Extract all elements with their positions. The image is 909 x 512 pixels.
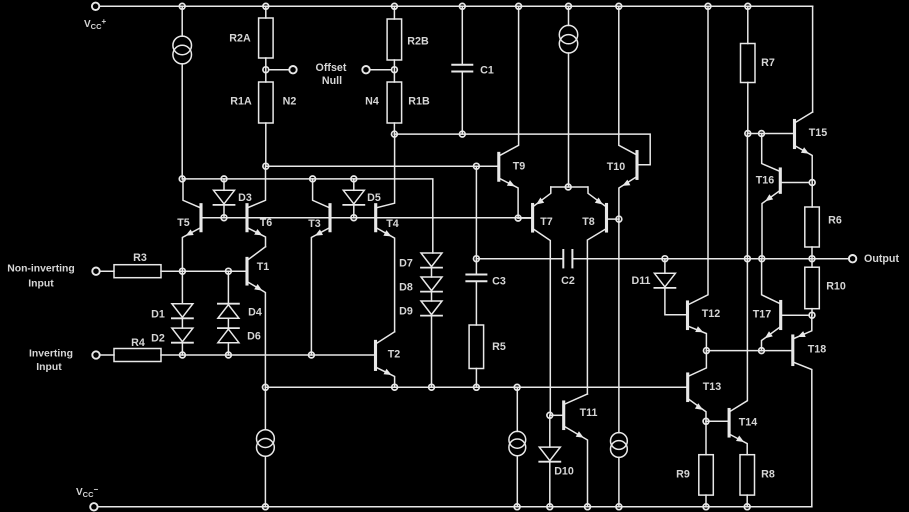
svg-text:R5: R5 (492, 341, 506, 353)
wire T14 base (706, 420, 729, 422)
terminal Offset Null left (289, 66, 296, 73)
node V- rail / I3 (263, 504, 269, 510)
svg-text:Output: Output (864, 253, 899, 265)
wire mirror base line (201, 217, 533, 219)
svg-text:T15: T15 (809, 127, 827, 139)
svg-text:T8: T8 (582, 216, 595, 228)
svg-text:D5: D5 (367, 192, 381, 204)
wire V- rail (98, 506, 812, 508)
diode D4 (218, 304, 239, 319)
resistor R8 (740, 455, 755, 495)
svg-text:T12: T12 (702, 308, 720, 320)
svg-text:T6: T6 (260, 217, 273, 229)
svg-text:T5: T5 (177, 217, 190, 229)
current source I3 (257, 430, 275, 457)
wire T18 base line (762, 350, 793, 352)
node I1 / T5 collector (179, 176, 185, 182)
resistor R3 (114, 265, 161, 278)
svg-text:D8: D8 (399, 282, 413, 294)
diode D1 (172, 304, 193, 319)
wire D3 bottom (223, 205, 225, 218)
svg-text:D6: D6 (247, 331, 261, 343)
wire D2 bottom (181, 343, 183, 355)
wire I5 top (516, 387, 518, 431)
svg-text:D2: D2 (151, 333, 165, 345)
wire I2 top (568, 6, 570, 25)
wire R8 bottom (746, 495, 748, 507)
svg-text:R10: R10 (826, 281, 846, 293)
wire bias line 179 (182, 179, 433, 253)
node VAS line / D11 (662, 256, 668, 262)
wire D6 bottom (227, 343, 229, 355)
wire R4 to T2 (161, 354, 376, 356)
wire R2A bottom (265, 58, 267, 82)
node T9 emitter / T7 base (515, 215, 521, 221)
diode D7 (421, 253, 442, 268)
wire VAS line right (572, 258, 849, 260)
transistor T4 (376, 134, 395, 332)
diode D2 (172, 328, 193, 343)
svg-text:R8: R8 (761, 469, 775, 481)
wire I1 bottom (181, 64, 183, 179)
resistor R6 (805, 207, 820, 247)
wire D7-D8 (431, 268, 433, 277)
node T7 T8 emitters (565, 184, 571, 190)
node V+ rail / T12 (705, 3, 711, 9)
node bus / I5 (514, 384, 520, 390)
wire T17 base line (781, 314, 809, 316)
diode D10 (539, 447, 560, 462)
svg-text:N4: N4 (365, 96, 379, 108)
node inv / T3 emitter (309, 352, 315, 358)
diode D6 (218, 328, 239, 343)
svg-text:D1: D1 (151, 309, 165, 321)
node V+ rail / R7 (745, 3, 751, 9)
svg-text:N2: N2 (283, 96, 297, 108)
wire D5 bottom (353, 205, 355, 218)
svg-text:C3: C3 (492, 276, 506, 288)
svg-text:T18: T18 (808, 344, 826, 356)
wire T12e line (706, 350, 761, 352)
transistor T1 (247, 247, 266, 388)
wire C1 top (461, 6, 463, 65)
current source I5 (509, 431, 526, 455)
node V+ rail / I1 (179, 3, 185, 9)
resistor R1A (259, 82, 274, 123)
wire T7 base (518, 217, 533, 219)
diode D8 (421, 277, 442, 292)
wire emitter bus (265, 386, 687, 388)
svg-text:C1: C1 (480, 65, 494, 77)
wire R5 bottom (475, 369, 477, 388)
svg-text:R2A: R2A (229, 33, 251, 45)
node D9 bottom (429, 384, 435, 390)
svg-text:T13: T13 (703, 381, 721, 393)
transistor T5 (182, 179, 201, 271)
wire offset null left (269, 69, 289, 71)
transistor T16 (762, 134, 781, 259)
node V- rail / I5 (514, 504, 520, 510)
svg-text:T2: T2 (388, 349, 401, 361)
wire D10 bottom (549, 462, 551, 507)
wire bus 166 (266, 165, 499, 167)
diode D5 (343, 190, 364, 205)
node T10 emitter / T8 base (616, 216, 622, 222)
node V- rail / I4 (616, 504, 622, 510)
wire I4 bottom (618, 457, 620, 506)
node T11 base / D10 (547, 412, 553, 418)
wire R1A bottom (265, 123, 267, 166)
node D5 top (351, 176, 357, 182)
node noninv / D1 (180, 268, 186, 274)
svg-text:T3: T3 (308, 218, 321, 230)
diode D11 (654, 273, 675, 288)
wire D3 top (223, 179, 225, 190)
svg-text:T10: T10 (607, 161, 625, 173)
node output / R6 / R10 (809, 256, 815, 262)
wire R1B bottom (393, 123, 395, 134)
svg-text:T4: T4 (386, 218, 399, 230)
node T17 emitter / T18 base (759, 348, 765, 354)
wire C3 top (475, 166, 477, 274)
wire T1 base (228, 270, 247, 272)
wire I3 top (264, 387, 266, 429)
svg-text:Input: Input (28, 279, 54, 290)
svg-text:R2B: R2B (407, 36, 429, 48)
wire V+ rail (99, 5, 812, 7)
node R5 bottom (474, 384, 480, 390)
resistor R5 (469, 325, 484, 369)
node V- rail / T11 (585, 504, 591, 510)
wire D9 bottom (431, 316, 433, 387)
wire R6 bottom (811, 247, 813, 259)
node C3 / comp line (474, 256, 480, 262)
wire D4 top (227, 271, 229, 304)
svg-text:R1A: R1A (230, 96, 252, 108)
svg-text:Input: Input (36, 362, 62, 373)
wire R2B bottom (393, 60, 395, 82)
diode D3 (214, 190, 235, 205)
node offset null left (263, 67, 269, 73)
svg-text:R1B: R1B (408, 96, 430, 108)
terminal Non-inverting input (92, 268, 99, 275)
terminal Output (849, 255, 856, 262)
wire C3 to R5 (475, 281, 477, 325)
capacitor C3 (466, 275, 486, 282)
transistor T7 (533, 187, 551, 415)
capacitor C1 (452, 65, 472, 72)
svg-text:Offset: Offset (316, 62, 347, 74)
svg-text:R7: R7 (761, 57, 775, 69)
wire D5 top (353, 179, 355, 190)
terminal Inverting input (92, 351, 99, 358)
svg-text:T7: T7 (540, 216, 553, 228)
resistor R9 (699, 455, 714, 495)
node R1A bottom / T6 collector (263, 163, 269, 169)
node D3 top (221, 176, 227, 182)
node T15 emitter / R6 / T16 base (809, 180, 815, 186)
node D3 bottom (221, 215, 227, 221)
node T13 emitter / T14 base (703, 418, 709, 424)
wire T10 emitter down (618, 219, 620, 433)
wire T15 base line (748, 133, 795, 135)
transistor T12 (688, 6, 709, 350)
current source I2 (559, 25, 577, 53)
node inv / D6 (226, 352, 232, 358)
node V- rail / R8 (744, 504, 750, 510)
resistor R10 (805, 267, 820, 309)
wire V+ rail right drop (812, 6, 814, 112)
wire comp line left (476, 258, 563, 260)
wire T13e to R9 (705, 421, 707, 454)
svg-text:R4: R4 (131, 337, 145, 349)
svg-text:T14: T14 (739, 417, 757, 429)
svg-text:Non-inverting: Non-inverting (7, 264, 75, 275)
node T2 emitter (392, 384, 398, 390)
svg-text:Null: Null (322, 75, 342, 87)
svg-text:D9: D9 (399, 306, 413, 318)
node V+ rail / C1 (459, 3, 465, 9)
node noninv / D4 (226, 268, 232, 274)
resistor R2A (259, 18, 274, 58)
wire I2 bottom (568, 53, 570, 187)
node inv / D2 (180, 352, 186, 358)
node V+ rail / T9 (516, 3, 522, 9)
wire D4-D6 (227, 318, 229, 328)
svg-text:T1: T1 (257, 261, 270, 273)
terminal Vcc+ (92, 3, 99, 10)
node T1 emitter / I3 (263, 384, 269, 390)
transistor T9 (499, 6, 519, 218)
svg-text:D3: D3 (238, 192, 252, 204)
wire R10 top (811, 259, 813, 268)
wire I3 bottom (264, 456, 266, 507)
wire R9 bottom (705, 495, 707, 507)
current source I4 (611, 433, 628, 458)
svg-text:D10: D10 (554, 466, 574, 478)
svg-text:C2: C2 (561, 275, 575, 287)
wire bias bus 134 (394, 134, 650, 165)
resistor R1B (387, 82, 402, 123)
wire R7 bottom (747, 83, 749, 134)
node bus166 / C3 (474, 163, 480, 169)
wire D11 top (664, 259, 666, 274)
svg-text:R9: R9 (676, 469, 690, 481)
wire offset null right (370, 69, 392, 71)
wire inv to R4 (100, 354, 114, 356)
svg-text:D4: D4 (248, 307, 262, 319)
transistor T14 (729, 134, 747, 455)
node V+ rail / I2 (566, 3, 572, 9)
svg-text:T9: T9 (513, 161, 526, 173)
resistor R4 (114, 349, 161, 362)
wire I1 top (181, 6, 183, 36)
node T15 base / T16 collector (759, 131, 765, 137)
transistor T2 (376, 332, 395, 387)
svg-text:D7: D7 (399, 258, 413, 270)
svg-text:R6: R6 (828, 215, 842, 227)
wire C1 bottom (461, 72, 463, 135)
node V+ rail / T10 (616, 3, 622, 9)
transistor T3 (311, 179, 330, 355)
wire D11 to T12 base (665, 288, 686, 315)
capacitor C2 (563, 250, 572, 267)
wire R10 bottom (811, 309, 813, 316)
diode D9 (421, 301, 442, 316)
svg-text:R3: R3 (133, 252, 147, 264)
svg-text:T16: T16 (756, 175, 774, 187)
wire T8 base (607, 218, 619, 220)
wire T16 base line (780, 182, 808, 184)
current source I1 (173, 36, 192, 64)
svg-text:T17: T17 (753, 309, 771, 321)
resistor R2B (387, 19, 402, 60)
transistor T8 (587, 187, 606, 394)
wire T7-T8 emitter bus (551, 186, 588, 188)
node D5 bottom (351, 215, 357, 221)
wire D1-D2 (181, 319, 183, 329)
transistor T18 (793, 315, 812, 507)
node output line / T16 emitter (759, 256, 765, 262)
wire R6 top (811, 183, 813, 208)
node V- rail / R9 (703, 504, 709, 510)
resistor R7 (741, 44, 756, 83)
terminal Offset Null right (362, 66, 369, 73)
transistor T10 (619, 6, 637, 219)
wire R7 top (747, 6, 749, 43)
svg-text:D11: D11 (631, 275, 650, 287)
wire D8-D9 (431, 292, 433, 301)
wire D1 top (181, 271, 183, 304)
node T12 emitter / T13 collector (704, 348, 710, 354)
wire D10 top (549, 415, 551, 447)
wire R2A top (265, 6, 267, 18)
node bias bus / C1 (459, 131, 465, 137)
wire R3 to T1 (161, 270, 247, 272)
transistor T15 (795, 112, 813, 183)
node R1B bottom (392, 131, 398, 137)
node T3 collector (310, 176, 316, 182)
node R7 bottom / T15 base (745, 131, 751, 137)
svg-text:T11: T11 (580, 407, 598, 419)
transistor T11 (564, 394, 588, 507)
wire R2B top (393, 6, 395, 19)
wire T11 base (550, 414, 564, 416)
node R10 bottom / T17 base / T18 emitter (809, 312, 815, 318)
wire I5 bottom (516, 456, 518, 507)
node V+ rail / R2A (263, 3, 269, 9)
terminal Vcc- (90, 503, 97, 510)
transistor T13 (688, 351, 707, 422)
transistor T17 (762, 259, 781, 351)
transistor T6 (247, 166, 266, 247)
node output line / T14 riser (745, 256, 751, 262)
svg-text:Inverting: Inverting (29, 349, 73, 360)
wire noninv to R3 (100, 270, 114, 272)
node offset null right (392, 67, 398, 73)
node V+ rail / R2B (392, 3, 398, 9)
node V- rail / D10 (547, 504, 553, 510)
